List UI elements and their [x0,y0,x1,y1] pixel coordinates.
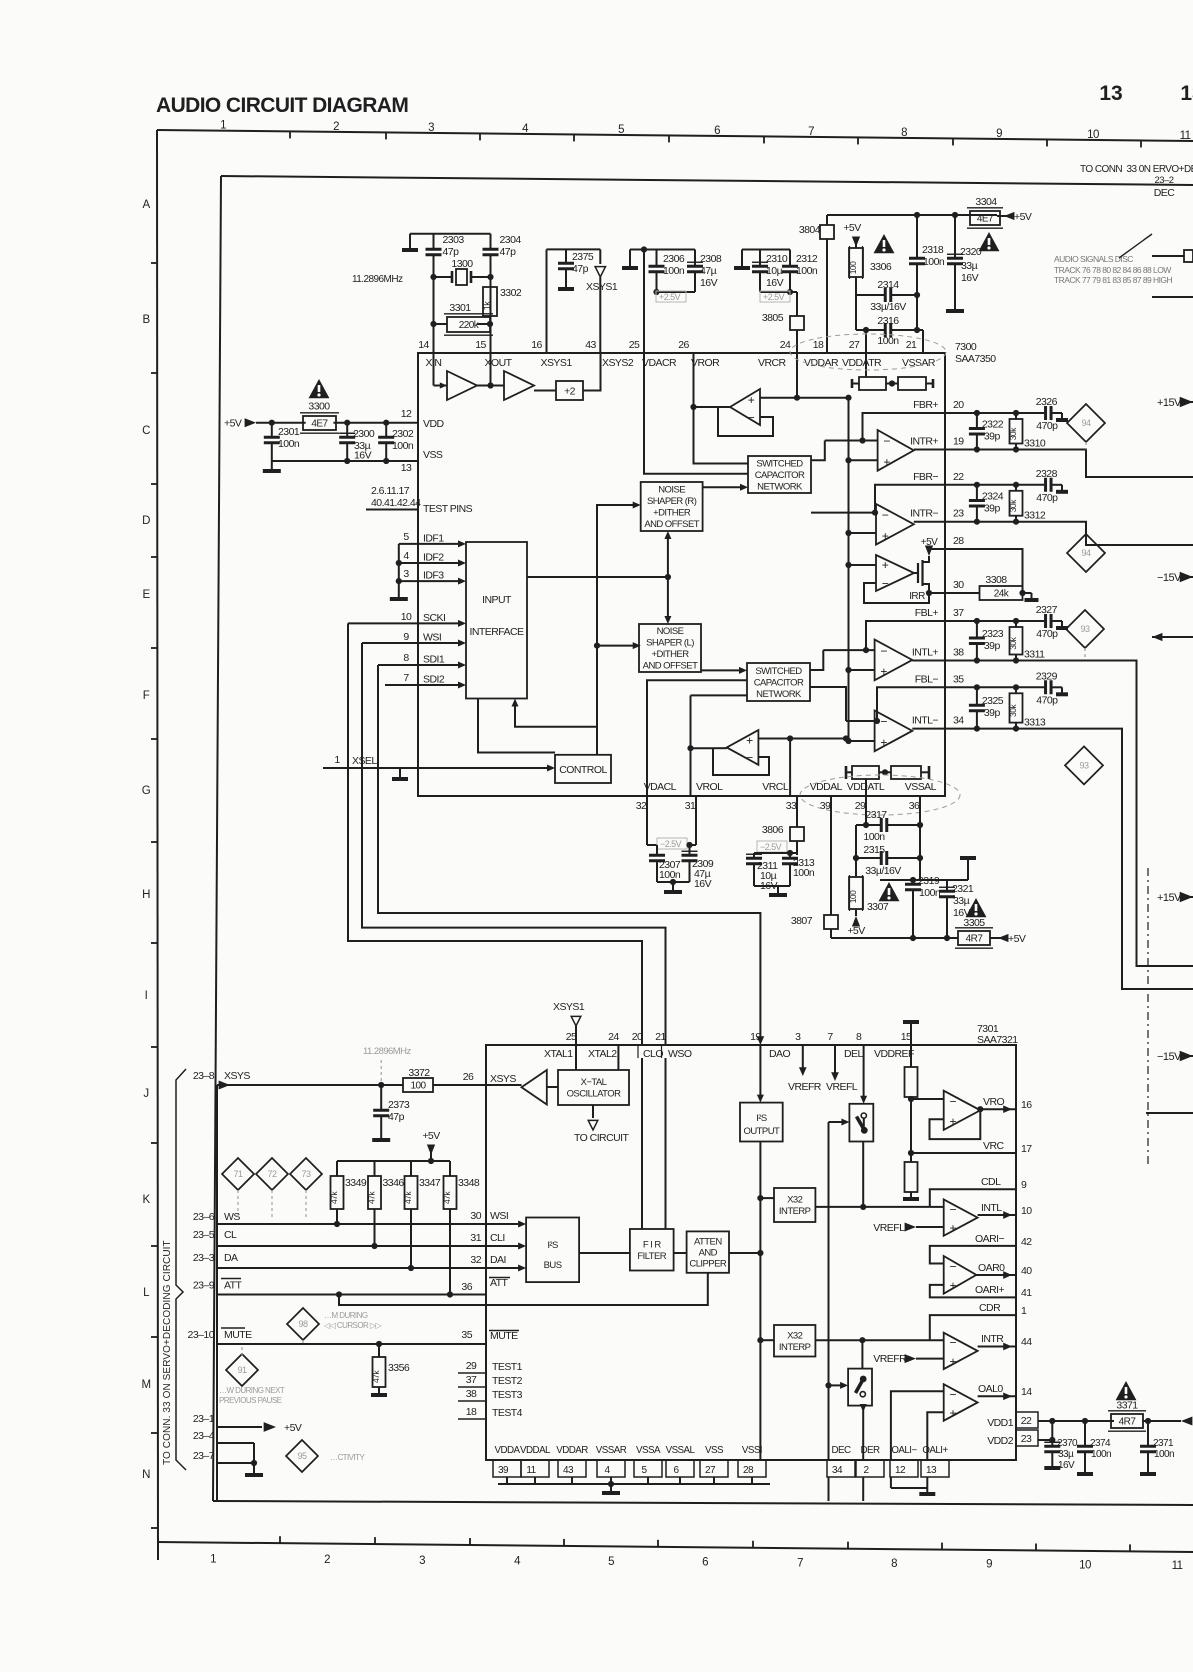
wire 3348 bottom to ATT [449,1209,451,1295]
svg-text:47k: 47k [442,1191,452,1204]
svg-text:2.6.11.17: 2.6.11.17 [371,485,410,497]
svg-text:2375: 2375 [572,251,594,263]
svg-text:2302: 2302 [392,428,414,440]
wire VSSAL pin 36 down [919,796,921,880]
svg-text:29: 29 [855,800,866,812]
svg-text:3312: 3312 [1024,510,1046,522]
wire IDF common to ground [398,544,400,598]
svg-text:23–1: 23–1 [193,1413,215,1425]
svg-text:17: 17 [1021,1143,1032,1155]
wire INTR+ output jog to right edge [945,450,1193,478]
svg-text:24: 24 [780,339,791,351]
svg-text:12: 12 [895,1465,906,1476]
rail tap INTL+ + [845,667,851,673]
svg-text:+5V: +5V [224,418,242,430]
svg-text:−: − [949,1259,956,1273]
resistor 3349 47k [336,1161,338,1176]
svg-text:47p: 47p [500,246,517,258]
svg-text:INTR: INTR [981,1333,1004,1345]
wire ATTEN bottom to ATT line [339,1273,708,1305]
svg-text:+: + [880,735,887,749]
svg-text:12: 12 [401,408,412,420]
ground left of 2303 [409,234,411,248]
svg-text:4R7: 4R7 [966,934,984,945]
svg-text:91: 91 [238,1365,247,1375]
svg-text:WSI: WSI [423,632,441,644]
wire DAO to X32 lower [757,1337,763,1343]
svg-text:XOUT: XOUT [485,357,513,369]
svg-text:INTERFACE: INTERFACE [470,626,525,638]
svg-text:D: D [142,515,150,527]
wire CDR pin 1 [930,1315,1016,1340]
wire buffer1 out to pin15/buffer2 [477,385,504,387]
svg-text:BUS: BUS [544,1260,562,1271]
ground left of 2306 [629,250,631,267]
resistor 3313 30k [1013,684,1019,690]
wire NS(L) out to SCN(L) [701,669,742,671]
capacitor 2307 100n [656,845,658,855]
svg-text:TEST2: TEST2 [492,1375,523,1387]
svg-text:3806: 3806 [762,824,784,836]
svg-text:72: 72 [268,1169,277,1179]
svg-text:7: 7 [808,126,814,138]
svg-text:INTL+: INTL+ [912,647,939,659]
svg-text:33µ: 33µ [961,260,978,272]
svg-text:3311: 3311 [1024,649,1045,661]
svg-text:VDDAR: VDDAR [556,1445,588,1456]
svg-text:…W DURING NEXT: …W DURING NEXT [219,1386,285,1395]
opamp INTR+ [878,430,914,471]
wire INTR- + input [849,532,877,534]
ground above 2321 [947,879,968,881]
svg-text:100n: 100n [392,440,414,452]
svg-text:CDR: CDR [979,1302,1001,1314]
wire VDDATR pin into resistor pair [865,353,867,377]
wire 2324 row FBR line [945,484,1046,486]
wire VDDATL pin 29 down [865,796,867,825]
resistor pair VDDATR (internal top) [852,379,933,388]
svg-text:VDDAL: VDDAL [810,781,843,793]
capacitor 2371 100n [1143,1420,1181,1422]
svg-text:47p: 47p [443,246,460,258]
warning triangle 3304 [979,232,1000,251]
svg-text:1: 1 [210,1553,216,1565]
wire OARO out pin 40 [976,1274,1016,1276]
svg-text:XTAL2: XTAL2 [588,1048,617,1060]
svg-text:16V: 16V [700,277,718,289]
diamond 98 near MUTE [287,1308,319,1340]
svg-text:IDF2: IDF2 [423,552,444,564]
svg-text:+: + [883,455,890,469]
svg-text:TEST3: TEST3 [492,1389,523,1401]
svg-text:93: 93 [1080,760,1089,770]
diamond pointer 93 lower [1065,746,1103,784]
svg-text:H: H [142,889,150,901]
capacitor 2318 100n [916,215,918,257]
svg-text:ATTEN: ATTEN [694,1236,722,1247]
svg-text:94: 94 [1082,418,1091,428]
svg-text:95: 95 [298,1451,307,1461]
resistor 3307 100 with +5V [849,877,863,909]
ground left of 2310 [741,250,743,267]
opamp VRO [944,1091,981,1130]
svg-text:SWITCHED: SWITCHED [756,458,803,469]
faint dashed ellipse bottom pins [800,775,960,815]
svg-text:36: 36 [909,800,920,812]
svg-text:+: + [949,1221,956,1235]
svg-text:CDL: CDL [981,1176,1001,1188]
right edge connector stub upper [1152,255,1184,257]
svg-text:VSSI: VSSI [742,1445,762,1456]
svg-text:TEST PINS: TEST PINS [423,503,473,515]
svg-text:3304: 3304 [975,196,997,208]
svg-text:30k: 30k [1008,636,1018,649]
svg-text:11: 11 [1180,130,1191,142]
svg-text:10µ: 10µ [766,265,783,277]
svg-text:AND: AND [699,1247,718,1258]
svg-text:M: M [141,1379,150,1391]
capacitor 2311 10u 16V [754,852,797,854]
svg-text:VRO: VRO [983,1096,1004,1108]
wire to noise shaper L (down arrow) [667,577,669,619]
wire VDD2 stub [1038,1439,1052,1441]
svg-text:100n: 100n [919,887,941,899]
wire VROL to SCN(L) [691,694,748,696]
svg-text:XSEL: XSEL [352,755,377,767]
svg-text:3347: 3347 [419,1177,441,1189]
warning triangle 3371 [1116,1381,1137,1400]
wire XTAL2 down [617,1045,619,1070]
svg-text:2317: 2317 [865,809,887,821]
svg-text:I²S: I²S [547,1240,558,1251]
wire 2306/2308 bottom join to VDACR pin [657,291,696,293]
svg-text:100n: 100n [923,256,945,268]
wire DER select to switch 2 [825,1382,831,1388]
wire 3346 bottom to CL [374,1209,376,1246]
svg-text:3804: 3804 [799,224,821,236]
svg-text:2303: 2303 [443,234,465,246]
svg-text:47k: 47k [329,1191,339,1204]
svg-text:WSO: WSO [668,1048,692,1060]
svg-text:11: 11 [1172,1560,1183,1572]
svg-text:23: 23 [1021,1433,1032,1445]
svg-text:+15V: +15V [1157,892,1182,904]
svg-text:93: 93 [1081,624,1090,634]
wire join to VRCR pin 24 [760,291,790,293]
svg-text:27: 27 [705,1465,716,1476]
wire input interface to control [478,699,555,753]
wire 23-4/23-7 join to ground [253,1443,255,1463]
wire pin 28 to 24k [945,549,1023,590]
svg-text:42: 42 [1021,1236,1032,1248]
wire INTL- output to right edge (lower route) [945,729,1193,989]
svg-text:+2.5V: +2.5V [763,292,785,302]
block I2S OUTPUT [740,1103,783,1142]
schematic border bottom wire [213,1501,1193,1505]
svg-text:33µ: 33µ [953,895,970,907]
svg-text:VSSAL: VSSAL [666,1445,696,1456]
svg-text:DAO: DAO [769,1048,790,1060]
wire DEL down to switch 1 [863,1045,865,1098]
svg-text:OAL0: OAL0 [978,1383,1003,1395]
svg-text:21: 21 [906,339,917,351]
wire control to noise shaper L [597,645,636,647]
wire IRR feedback loop [864,583,929,603]
svg-text:3307: 3307 [867,901,889,913]
svg-text:13: 13 [926,1465,937,1476]
svg-text:3301: 3301 [449,302,471,314]
wire VSSAR pin 21 [922,330,924,353]
svg-text:23–5: 23–5 [193,1229,215,1241]
svg-text:23–2: 23–2 [1155,175,1174,186]
svg-text:2300: 2300 [353,428,375,440]
wire ATTEN to DAO vertical [729,1252,760,1254]
wire SDI1 to DAO [378,665,760,1040]
svg-text:100n: 100n [278,438,300,450]
svg-text:21: 21 [655,1031,666,1043]
wire OALI+ to OALO + [927,1412,943,1460]
capacitor 2323 39p [974,618,980,624]
svg-text:TO CONN. 33 ON SERVO+DECODING: TO CONN. 33 ON SERVO+DECODING CIRCUIT [162,1240,173,1465]
svg-text:470p: 470p [1036,420,1058,432]
warning triangle 3307 [879,882,900,901]
svg-text:33µ: 33µ [1058,1449,1074,1460]
wire to noise shaper R (up arrow) [667,536,669,577]
svg-text:NOISE: NOISE [658,485,685,496]
wire switch1 bottom to INTL - line [862,1142,864,1207]
svg-text:4: 4 [403,550,409,562]
svg-text:28: 28 [743,1465,754,1476]
label -2.5V faint right [757,841,787,852]
svg-text:7300: 7300 [955,341,977,353]
capacitor 2325 39p [974,684,980,690]
left bus vertical [216,1085,218,1502]
svg-text:100n: 100n [863,831,885,843]
svg-text:1: 1 [1021,1305,1027,1317]
svg-text:OARI−: OARI− [975,1233,1004,1245]
svg-text:23–6: 23–6 [193,1211,215,1223]
svg-text:2301: 2301 [278,426,300,438]
junction dot VDACR rail [641,246,647,252]
svg-text:5: 5 [618,124,624,136]
right edge stub lower [1152,296,1193,298]
capacitor 2303 47p [433,234,435,249]
svg-text:5: 5 [403,531,409,543]
svg-text:5: 5 [608,1556,614,1568]
svg-text:37: 37 [466,1374,477,1386]
svg-text:INTR−: INTR− [910,508,938,520]
capacitor 2308 47u 16V [694,250,696,267]
svg-text:3310: 3310 [1024,438,1046,450]
svg-text:28: 28 [953,535,964,547]
svg-text:6: 6 [714,125,720,137]
schematic border top [221,176,1193,185]
capacitor 2375 47p [565,249,567,263]
svg-text:20: 20 [953,399,964,411]
wire switch2 top to INTR line [861,1340,863,1368]
svg-text:OAR0: OAR0 [978,1262,1005,1274]
svg-text:2: 2 [333,121,339,133]
svg-text:INTL−: INTL− [912,715,939,727]
svg-text:13: 13 [1180,82,1193,105]
svg-text:+: + [880,665,887,679]
svg-text:+5V: +5V [843,222,861,234]
svg-text:73: 73 [302,1169,311,1179]
svg-text:27: 27 [849,339,860,351]
svg-text:−: − [949,1202,956,1216]
wire SCN(R) out1 [811,441,825,461]
svg-text:OSCILLATOR: OSCILLATOR [567,1089,621,1100]
wire FIR to ATTEN [674,1252,687,1254]
wire INTR- - input from SCN(R) out2 [811,512,876,514]
svg-text:−: − [949,1336,956,1350]
wire opamp L + input to VRCL and reference rail [758,738,848,740]
capacitor 2370 33u 16V [1049,1418,1055,1424]
buffer XSYS (points left) [522,1070,547,1105]
svg-text:−: − [880,644,887,658]
block NOISE SHAPER (L) +DITHER AND OFFSET [639,624,701,672]
svg-text:2318: 2318 [922,244,944,256]
wire VREFR arrow into IC [802,1045,804,1070]
svg-text:23–8: 23–8 [193,1070,215,1082]
buffer XOUT triangle [504,371,534,400]
rail tap INTR- + [845,530,851,536]
svg-text:23–9: 23–9 [193,1280,215,1292]
svg-text:SDI1: SDI1 [423,654,445,666]
capacitor 2324 39p [974,482,980,488]
svg-text:23: 23 [953,508,964,520]
wire FBR- pin 22 into - input [875,485,945,513]
svg-text:100n: 100n [877,335,899,347]
switch S2 (DER) [848,1369,872,1406]
svg-text:+5V: +5V [1014,211,1032,223]
block NOISE SHAPER (R) +DITHER AND OFFSET [641,482,703,531]
label +2.5V (faint) [656,291,686,302]
block CONTROL [555,755,611,783]
wire INTL+ output to right edge (lower route) [945,661,1193,967]
wire INTR+ output to pin 19 [914,449,945,451]
diamond pointer 94 upper [1067,404,1105,442]
wire INTL out pin 10 [978,1214,1016,1216]
opamp INTR- [876,504,914,545]
wire OARI- pin 42 [930,1246,1016,1264]
svg-text:SAA7321: SAA7321 [977,1034,1018,1046]
svg-text:VDD1: VDD1 [987,1417,1014,1429]
svg-text:47k: 47k [371,1370,381,1383]
svg-text:TRACK 76 78 80 82 84 86 88 LOW: TRACK 76 78 80 82 84 86 88 LOW [1054,265,1171,275]
svg-text:35: 35 [953,673,964,685]
svg-text:NETWORK: NETWORK [756,689,802,700]
wire 23-6 WS to WSI pin 30 [217,1223,486,1225]
svg-text:I²S: I²S [756,1113,767,1124]
wire INTR+ - input [825,440,878,442]
opamp L reference amp (points left) [727,730,759,765]
wire SCKI to CLO [348,623,642,1045]
capacitor 2326 470p to ground [1046,406,1052,420]
svg-text:30k: 30k [1008,499,1018,512]
svg-text:3306: 3306 [870,261,892,273]
svg-text:10: 10 [1079,1559,1091,1571]
capacitor 2316 100n [856,329,885,331]
svg-text:2322: 2322 [982,418,1004,430]
svg-text:−2.5V: −2.5V [660,839,682,849]
wire IRR source to pin 30 [929,590,945,593]
svg-text:11: 11 [526,1465,536,1476]
svg-text:13: 13 [401,462,412,474]
svg-text:XTAL1: XTAL1 [544,1048,573,1060]
svg-text:VROR: VROR [691,357,720,369]
svg-text:2373: 2373 [388,1099,410,1111]
block SWITCHED CAPACITOR NETWORK (R) [748,456,811,493]
svg-text:2370: 2370 [1057,1438,1078,1449]
svg-text:+: + [748,393,755,407]
wire WSI to WSO [362,643,666,1045]
pointer line to disc note [1119,234,1152,258]
svg-text:3: 3 [428,122,434,134]
grounds under 2370/2374/2371 [1044,1466,1060,1470]
svg-text:CAPACITOR: CAPACITOR [755,470,805,481]
wire VDDATL pin from resistor pair [865,779,867,796]
wire OARI+ pin 41 [930,1285,1016,1298]
svg-text:VROL: VROL [696,781,723,793]
svg-text:6: 6 [702,1557,708,1569]
label -2.5V faint left [657,838,687,849]
left ruler line [157,130,158,1560]
svg-text:30: 30 [953,579,964,591]
svg-text:G: G [142,785,151,797]
svg-text:100n: 100n [663,265,685,277]
svg-text:VREFR: VREFR [873,1353,907,1365]
svg-text:−: − [883,434,890,448]
svg-text:SHAPER (R): SHAPER (R) [647,496,697,507]
wire X32 lower out to INTR - [815,1339,943,1341]
diamond 95 near 23-7 [286,1440,318,1472]
top ruler ticks [289,131,291,138]
+5V rail below IC7300 [831,937,958,939]
svg-text:26: 26 [463,1071,474,1083]
svg-text:2: 2 [324,1554,330,1566]
opamp R reference amp (points left) [730,389,760,425]
svg-text:3: 3 [403,568,409,580]
svg-text:470p: 470p [1036,694,1058,706]
right edge line at 1120 [1146,1112,1193,1114]
svg-text:47µ: 47µ [700,265,717,277]
svg-text:K: K [142,1194,150,1206]
wire VROR pin to opamp/SCN(R) [694,353,749,464]
wire DEC/DER to bottom border [828,1477,830,1501]
wire NS(R) out to SCN(R) [703,486,743,488]
svg-text:22: 22 [953,471,964,483]
bead 3804 [826,215,828,225]
ground below 2320 [946,309,964,313]
capacitor 2310 10u 16V [759,250,761,267]
warning triangle 3300 [309,379,330,398]
svg-text:16V: 16V [694,878,712,890]
svg-text:16V: 16V [766,277,784,289]
svg-text:XSYS: XSYS [224,1070,250,1082]
svg-text:VSSA: VSSA [636,1445,661,1456]
svg-text:E: E [142,589,150,601]
svg-text:VDDREF: VDDREF [874,1048,914,1060]
svg-text:18: 18 [813,339,824,351]
wire 23-9 ATT to pin 36 [217,1294,486,1296]
svg-text:+5V: +5V [847,925,865,937]
resistor 3312 30k [1013,482,1019,488]
wire WSO down to FIR [665,1058,667,1229]
resistor 3356 47k on MUTE [376,1341,382,1347]
svg-text:AND OFFSET: AND OFFSET [643,661,698,672]
svg-text:ATT: ATT [224,1280,243,1292]
